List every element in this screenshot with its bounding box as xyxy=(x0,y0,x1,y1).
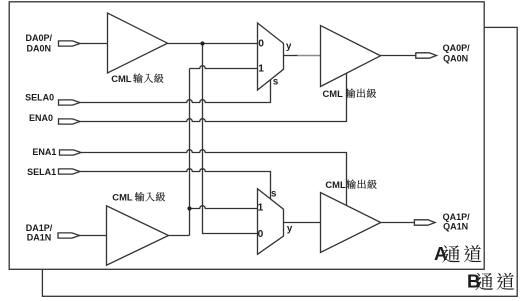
svg-text:y: y xyxy=(287,223,293,234)
svg-text:DA1N: DA1N xyxy=(27,233,52,243)
svg-text:QA0P/: QA0P/ xyxy=(443,43,471,53)
op-amp U1 CML input stage channel 0 xyxy=(108,13,168,73)
wire mux M1 input 1 with hop xyxy=(190,66,258,69)
svg-text:CML: CML xyxy=(111,73,132,84)
op-amp U2 CML input stage channel 1 xyxy=(107,206,169,265)
svg-text:CML: CML xyxy=(323,88,344,99)
wire SELA1 to M2 select xyxy=(80,169,271,199)
svg-text:ENA0: ENA0 xyxy=(29,113,53,123)
svg-text:QA0N: QA0N xyxy=(443,54,468,64)
svg-text:CML: CML xyxy=(325,179,346,190)
svg-text:y: y xyxy=(286,41,292,52)
wire vertical DA1 up to M1 input 1 xyxy=(189,69,191,236)
svg-text:DA0N: DA0N xyxy=(27,44,52,54)
wire U4 output to QA1 pin xyxy=(381,222,415,224)
svg-text:1: 1 xyxy=(258,202,264,213)
svg-text:SELA0: SELA0 xyxy=(25,92,54,102)
op-amp U3 CML output stage channel 0 xyxy=(321,26,381,87)
wire U1 output to mux M1 input 0 xyxy=(168,43,258,45)
wire DA1 pin to U2 xyxy=(79,235,107,237)
wire U3 output to QA0 pin xyxy=(381,55,416,57)
pin QA0P/QA0N xyxy=(416,53,437,58)
wire ENA1 to U4 enable xyxy=(81,150,347,206)
svg-text:s: s xyxy=(271,189,276,200)
mux M2 xyxy=(258,189,284,255)
pin QA1P/QA1N xyxy=(414,220,435,225)
svg-text:ENA1: ENA1 xyxy=(32,147,56,157)
svg-text:s: s xyxy=(273,76,278,87)
mux M1 xyxy=(258,23,284,90)
svg-text:SELA1: SELA1 xyxy=(27,167,56,177)
svg-text:0: 0 xyxy=(258,39,264,50)
svg-text:DA1P/: DA1P/ xyxy=(26,223,53,233)
svg-text:DA0P/: DA0P/ xyxy=(26,33,53,43)
wire mux M2 input 1 branch with hop xyxy=(190,206,258,209)
op-amp U4 CML output stage channel 1 xyxy=(321,193,381,253)
svg-text:QA1P/: QA1P/ xyxy=(443,212,471,222)
pin ENA1 xyxy=(60,150,82,155)
wire vertical from DA0 node down to mux M2 input 0 xyxy=(203,44,258,234)
svg-text:1: 1 xyxy=(258,64,264,75)
svg-text:CML: CML xyxy=(112,192,133,203)
svg-text:QA1N: QA1N xyxy=(443,221,468,231)
node junction DA1 output xyxy=(187,206,191,210)
wire SELA0 to M1 select xyxy=(80,80,271,103)
svg-text:0: 0 xyxy=(258,229,264,240)
wire DA0 pin to U1 xyxy=(80,43,107,45)
pin ENA0 xyxy=(59,119,81,124)
node junction DA0 output xyxy=(200,41,204,45)
pin SELA0 xyxy=(59,100,81,105)
wire ENA0 to U3 enable xyxy=(80,73,347,121)
wire M2 y output to U4 xyxy=(284,222,321,224)
wire U2 output xyxy=(169,235,190,237)
pin DA1P/DA1N xyxy=(58,233,80,238)
wire M1 y output to U3 xyxy=(284,55,298,57)
pin DA0P/DA0N xyxy=(59,41,81,46)
pin SELA1 xyxy=(59,169,81,174)
